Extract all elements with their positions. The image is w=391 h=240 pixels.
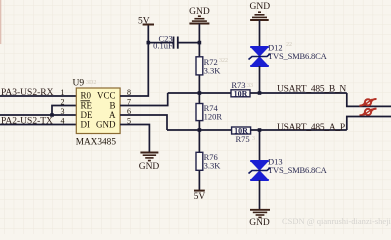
- svg-text:VCC: VCC: [97, 90, 116, 100]
- ground GND top (inverted): [189, 7, 210, 57]
- svg-text:USART_485_A_P: USART_485_A_P: [277, 123, 345, 133]
- wire R74 to A line: [198, 121, 200, 130]
- svg-text:R75: R75: [236, 134, 250, 144]
- svg-text:33: 33: [247, 83, 253, 89]
- svg-text:5V: 5V: [138, 17, 150, 27]
- IC U9 MAX3485: [73, 79, 121, 148]
- wire C23 left: [148, 42, 173, 44]
- svg-text:3: 3: [252, 136, 255, 142]
- junction 5V-C23: [147, 41, 151, 45]
- wire pin5 GND to ground: [120, 125, 149, 153]
- svg-text:10R: 10R: [234, 89, 248, 98]
- svg-text:1: 1: [61, 88, 65, 97]
- resistor R73: [231, 80, 250, 98]
- wire pin3 net RE-DE: [0, 114, 76, 116]
- svg-text:120R: 120R: [204, 112, 223, 122]
- wire pin4 net PA2-US2-TX: [0, 124, 76, 126]
- svg-text:TVS_SMB6.8CA: TVS_SMB6.8CA: [268, 51, 328, 61]
- svg-text:3.3K: 3.3K: [204, 161, 222, 171]
- wire A line to R76: [198, 130, 200, 152]
- wire R76 to 5V bottom: [198, 170, 200, 190]
- wire pin7 B to B line: [120, 93, 168, 106]
- svg-text:0.1uF: 0.1uF: [153, 41, 173, 51]
- junction D13-A: [258, 128, 262, 132]
- wire pin8 VCC to 5V rail: [120, 25, 148, 97]
- sheet border fragment: [0, 0, 2, 44]
- wire A line left segment: [167, 129, 232, 131]
- svg-text:A: A: [109, 110, 116, 120]
- wire D13 to ground: [259, 180, 261, 210]
- ground GND below D13: [249, 210, 270, 228]
- svg-text:GND: GND: [139, 162, 160, 172]
- wire pin2 stub: [52, 106, 76, 116]
- svg-text:4: 4: [61, 117, 65, 126]
- junction D12-B: [258, 91, 262, 95]
- svg-text:PA3-US2-RX: PA3-US2-RX: [1, 88, 54, 98]
- svg-text:GND: GND: [96, 119, 116, 129]
- differential pair marker upper: [360, 99, 377, 106]
- svg-text:PA2-US2-TX: PA2-US2-TX: [1, 117, 53, 127]
- diode D13 TVS bidirectional: [249, 157, 328, 181]
- resistor R72: [196, 57, 221, 76]
- differential pair marker lower: [360, 109, 377, 116]
- wire D12 to B line: [259, 66, 261, 93]
- wire pin1 net PA3-US2-RX: [0, 95, 76, 97]
- wire B_N to right edge: [347, 93, 391, 106]
- junction pin2-pin3 tie: [50, 113, 54, 117]
- svg-text:B: B: [109, 100, 115, 110]
- svg-text:TVS_SMB6.8CA: TVS_SMB6.8CA: [268, 165, 328, 175]
- svg-text:MAX3485: MAX3485: [76, 137, 117, 147]
- svg-text:3: 3: [61, 107, 65, 116]
- svg-text:GND: GND: [250, 2, 271, 12]
- wire A_P to right edge: [347, 117, 391, 131]
- svg-text:CSDN @ qianrushi-dianzi-shejiq: CSDN @ qianrushi-dianzi-shejiquan: [282, 216, 391, 226]
- wire B line left segment: [168, 92, 231, 94]
- svg-text:3D2: 3D2: [86, 80, 96, 86]
- wire A line to D13: [259, 130, 261, 161]
- resistor R75: [232, 127, 251, 144]
- resistor R76: [196, 152, 221, 171]
- junction GND-C23: [198, 41, 202, 45]
- svg-text:RE: RE: [81, 100, 93, 110]
- capacitor C23: [153, 33, 178, 50]
- wire R72 to B line: [198, 75, 200, 93]
- svg-text:322: 322: [219, 58, 228, 64]
- wire C23 right: [178, 42, 200, 44]
- svg-text:USART_485_B_N: USART_485_B_N: [277, 84, 346, 94]
- svg-text:22: 22: [286, 42, 292, 48]
- svg-text:U9: U9: [73, 79, 85, 89]
- svg-text:DI: DI: [81, 119, 91, 129]
- svg-text:GND: GND: [249, 218, 270, 228]
- junction R74-A: [198, 128, 202, 132]
- svg-text:5V: 5V: [194, 192, 206, 202]
- svg-text:DE: DE: [81, 110, 93, 120]
- wire B line right segment: [250, 92, 347, 94]
- junction R72-B: [198, 91, 202, 95]
- wire pin6 A to A line: [120, 115, 167, 130]
- power port 5V bottom: [194, 191, 206, 202]
- svg-text:R0: R0: [81, 90, 92, 100]
- ground GND above D12 (inverted): [250, 2, 271, 47]
- resistor R74: [196, 103, 222, 122]
- ground GND below chip: [139, 153, 160, 172]
- svg-text:3.3K: 3.3K: [204, 65, 222, 75]
- wire A line right segment: [251, 129, 347, 131]
- diode D12 TVS bidirectional: [249, 43, 328, 67]
- svg-text:2: 2: [61, 98, 65, 107]
- wire B line to R74: [198, 93, 200, 104]
- power port 5V top: [138, 17, 154, 27]
